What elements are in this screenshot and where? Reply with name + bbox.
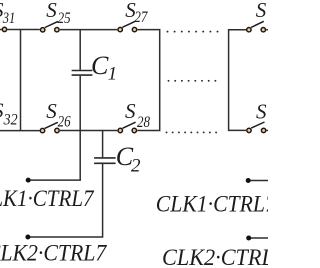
wire C2 branch upper [102, 131, 104, 158]
wire right rail with top and bottom stubs [229, 30, 247, 131]
svg-text:S: S [256, 0, 267, 22]
wire CLK1 right [249, 180, 268, 182]
wire top segment A [7, 29, 39, 31]
wire left rail [20, 30, 22, 131]
dotted continuation middle row [168, 80, 217, 82]
svg-text:CLK1·CTRL7: CLK1·CTRL7 [156, 191, 268, 216]
svg-text:2: 2 [131, 155, 141, 176]
node CLK1 right dot [246, 178, 251, 183]
label S27 [125, 0, 148, 26]
wire top-right stub [266, 29, 268, 31]
wire bottom segment B [60, 130, 117, 132]
wire C2 branch lower to CLK2 line and dot [29, 164, 103, 237]
svg-text:S: S [256, 100, 267, 124]
svg-text:C: C [91, 51, 109, 80]
svg-text:S: S [125, 99, 136, 123]
switch S25 [41, 21, 60, 32]
wire top segment C with corner down to mid rail [137, 30, 159, 131]
svg-text:26: 26 [58, 113, 71, 130]
capacitor C2 [94, 158, 116, 163]
label S28 [125, 99, 150, 131]
svg-text:27: 27 [134, 9, 148, 26]
svg-text:25: 25 [58, 10, 71, 27]
svg-text:31: 31 [2, 10, 15, 27]
label S31 [0, 0, 15, 27]
label S25 [46, 0, 70, 27]
svg-text:28: 28 [137, 114, 150, 131]
wire CLK2 right [249, 237, 268, 239]
svg-text:CLK2·CTRL7: CLK2·CTRL7 [162, 245, 268, 268]
svg-text:1: 1 [108, 63, 118, 84]
wire top-left stub [0, 29, 2, 31]
svg-text:S: S [46, 99, 57, 123]
switch S31 terminal [2, 27, 6, 31]
switch S27 [118, 21, 137, 32]
label S26 [46, 99, 70, 130]
svg-text:S: S [46, 0, 57, 22]
label C1 [91, 51, 117, 84]
switch S30 bottom right [247, 122, 266, 133]
switch S28 [118, 122, 136, 133]
svg-text:CLK2·CTRL7: CLK2·CTRL7 [0, 241, 108, 266]
label C2 [116, 142, 141, 176]
wire top segment B [60, 29, 117, 31]
wire C1 branch lower to CLK1 line and dot [29, 76, 80, 180]
node CLK1 left dot [26, 178, 31, 183]
switch S26 [40, 122, 59, 133]
node CLK2 left dot [25, 235, 30, 240]
node CLK2 right dot [246, 236, 251, 241]
wire C1 branch upper [79, 30, 81, 70]
capacitor C1 [72, 71, 93, 76]
svg-text:CLK1·CTRL7: CLK1·CTRL7 [0, 186, 95, 211]
label S32 [0, 99, 18, 129]
wire bottom-right stub [267, 129, 268, 131]
dotted continuation top row [167, 31, 219, 33]
svg-text:32: 32 [3, 111, 18, 128]
dotted continuation bottom row [166, 131, 218, 133]
switch S29 top right [247, 21, 266, 32]
wire bottom segment A [0, 130, 40, 132]
